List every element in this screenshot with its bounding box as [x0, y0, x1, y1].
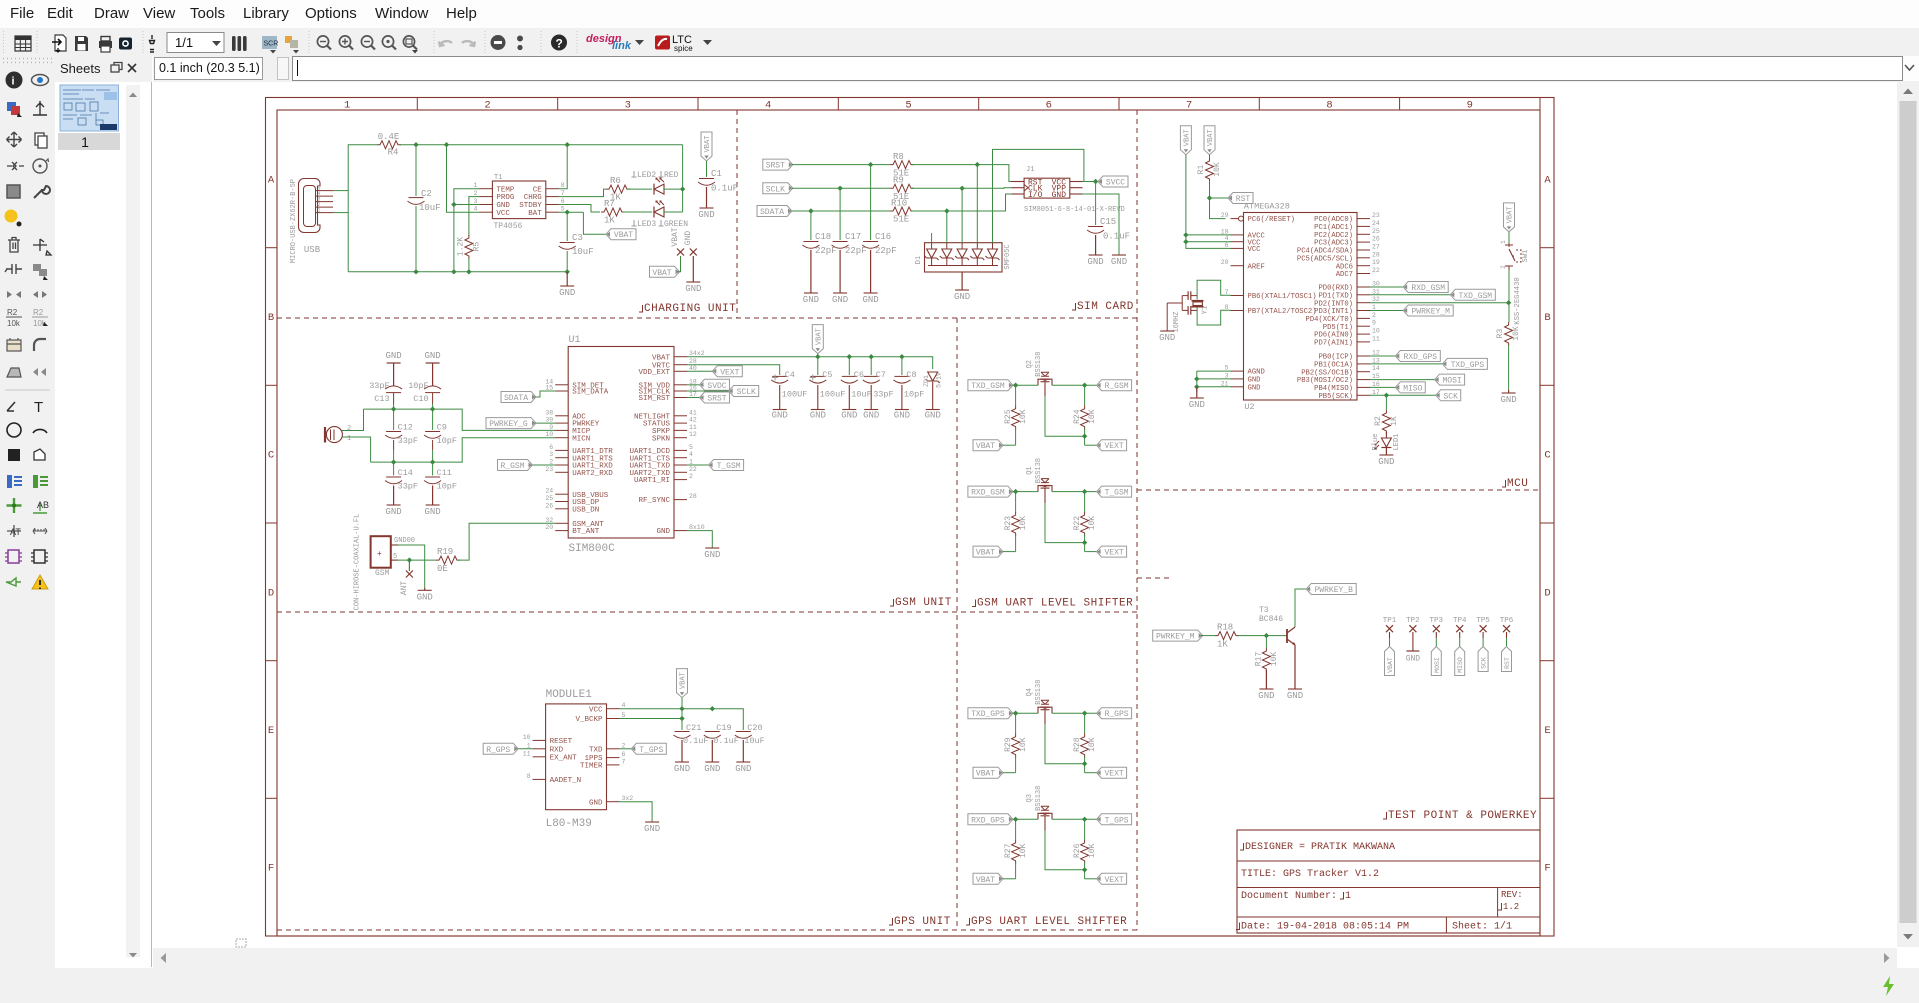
svg-text:Blue: Blue [1372, 434, 1380, 451]
svg-text:Date: 19-04-2018 08:05:14 PM: Date: 19-04-2018 08:05:14 PM [1241, 922, 1409, 933]
svg-text:SIM_RST: SIM_RST [638, 395, 670, 403]
svg-text:GND: GND [894, 411, 910, 421]
wire diode4 up [976, 165, 978, 243]
svg-text:R29: R29 [1004, 737, 1013, 752]
svg-text:2: 2 [484, 100, 490, 112]
pin 10 RESET [533, 739, 546, 741]
svg-text:1: 1 [344, 100, 350, 112]
svg-text:VCC: VCC [496, 210, 510, 218]
wire R18 to base [1237, 635, 1287, 637]
svg-text:15: 15 [545, 385, 553, 392]
pin 26 USB_DN [555, 508, 568, 510]
transistor Q3 BSS138 [1038, 813, 1052, 819]
toolbar copy-image icon [119, 38, 132, 50]
svg-text:R_GPS: R_GPS [1105, 710, 1129, 719]
svg-text:CE: CE [533, 186, 543, 194]
svg-text:MOSI: MOSI [1442, 377, 1461, 386]
net flag VBAT gps [677, 669, 688, 698]
pin 17 SIM_RST [674, 397, 687, 399]
wire diode3 up [961, 188, 963, 242]
sidebar icon filter [33, 368, 46, 376]
svg-text:SDATA: SDATA [504, 394, 528, 403]
svg-text:USB: USB [304, 245, 321, 255]
capacitor C3 [560, 242, 575, 244]
wire PD2 to switch [1370, 302, 1509, 304]
junction bottom rail R5 [466, 269, 471, 274]
svg-text:GND: GND [1406, 655, 1421, 664]
net flag MISO [1370, 386, 1395, 388]
net flag VEXT gsm [687, 370, 713, 372]
svg-text:VEXT: VEXT [1104, 549, 1123, 558]
svg-text:GND: GND [589, 799, 603, 807]
wire GND bottom rail [348, 271, 567, 273]
net flag VBAT mcu left1 [1180, 126, 1191, 155]
svg-text:MICN: MICN [572, 435, 590, 443]
svg-text:32: 32 [545, 517, 553, 524]
junction C18 SDATA [808, 208, 813, 213]
pin 6 UART1_DTR [555, 449, 568, 451]
svg-text:R26: R26 [1073, 843, 1082, 858]
wire VBAT to R [1003, 444, 1016, 446]
wire CHRG pin7 to R6 [559, 189, 606, 197]
junction mic rail c11 [430, 459, 435, 464]
junction right [1082, 711, 1087, 716]
wire VEXT [1085, 551, 1097, 553]
svg-text:10K: 10K [1019, 516, 1028, 531]
svg-text:13: 13 [1372, 357, 1380, 364]
net flag VBAT shifter [999, 770, 1003, 775]
svg-text:UART2_RXD: UART2_RXD [572, 470, 613, 478]
svg-text:Document Number:: Document Number: [1241, 890, 1337, 902]
sidebar icon line tool [7, 402, 15, 411]
pin 12 SPKN [674, 437, 687, 439]
wire VEXT [1085, 772, 1097, 774]
svg-text:10K: 10K [1019, 843, 1028, 858]
pin 11 PD7(AIN1) [1357, 341, 1370, 343]
svg-text:R18: R18 [1217, 623, 1233, 633]
svg-text:SMF05C: SMF05C [1004, 244, 1012, 269]
net flag RXD_GSM [1009, 489, 1013, 494]
svg-text:GND: GND [559, 288, 575, 298]
svg-text:GPS UART LEVEL SHIFTER: GPS UART LEVEL SHIFTER [971, 916, 1127, 928]
pin 3 UART1_RTS [555, 457, 568, 459]
svg-text:2: 2 [1372, 312, 1376, 319]
svg-text:GND: GND [685, 284, 701, 294]
pin 2 PD4(XCK/T0) [1357, 317, 1370, 319]
wire VBAT flag to nc [678, 256, 681, 272]
svg-text:C18: C18 [815, 232, 831, 242]
svg-text:38: 38 [545, 409, 553, 416]
resistor R17 [1265, 636, 1267, 648]
net flag SDATA [788, 209, 792, 214]
resistor R8 [890, 161, 914, 169]
toolbar zoom combo [167, 33, 224, 53]
junction bottom rail C3 [565, 269, 570, 274]
svg-text:22: 22 [689, 466, 697, 473]
svg-text:28: 28 [1372, 251, 1380, 258]
wire VBAT to R [1003, 878, 1016, 880]
wire VCC pin4 [447, 145, 480, 213]
ground symbol C15 [1089, 254, 1103, 256]
svg-text:BT_ANT: BT_ANT [572, 528, 600, 536]
svg-text:TITLE: GPS Tracker V1.2: TITLE: GPS Tracker V1.2 [1241, 868, 1379, 880]
wire drain [1052, 384, 1097, 386]
pin 5 BAT [546, 211, 559, 213]
ground symbol J1 GND [1112, 254, 1126, 256]
svg-text:20: 20 [545, 524, 553, 531]
svg-text:R7: R7 [604, 199, 615, 209]
svg-text:B: B [268, 312, 274, 324]
junction SVCC C15 [1093, 179, 1098, 184]
wire gate [1045, 725, 1085, 764]
pin 10 PD6(AIN0) [1357, 333, 1370, 335]
svg-text:11: 11 [1372, 335, 1380, 342]
net flag VEXT shifter [1097, 443, 1101, 448]
svg-text:51E: 51E [893, 215, 909, 225]
svg-text:?: ? [556, 37, 563, 51]
wire VEXT [1085, 444, 1097, 446]
junction right [1082, 489, 1087, 494]
net flag SCLK gsm [687, 390, 729, 392]
svg-text:R9: R9 [893, 176, 904, 186]
svg-text:AB: AB [37, 500, 49, 510]
wire VBAT rail gsm [687, 357, 933, 369]
svg-text:GND: GND [1248, 377, 1261, 385]
svg-text:RXD: RXD [550, 746, 564, 754]
svg-text:1: 1 [1500, 240, 1507, 244]
svg-text:PC0(ADC0): PC0(ADC0) [1314, 216, 1353, 224]
net flag VEXT shifter [1097, 549, 1101, 554]
svg-text:9: 9 [549, 424, 553, 431]
svg-text:C9: C9 [437, 423, 447, 433]
wire VCC rail [620, 709, 744, 730]
pin 17 PB5(SCK) [1357, 394, 1370, 396]
svg-text:1: 1 [527, 742, 531, 749]
ground symbol C16 [864, 292, 878, 294]
IC T1 TP4056 [492, 181, 545, 219]
pin 7 CHRG [546, 196, 559, 198]
svg-text:10pF: 10pF [904, 390, 924, 400]
junction top rail CE [565, 142, 570, 147]
svg-text:R6: R6 [610, 176, 621, 186]
section divider row3 bottom [277, 929, 1137, 931]
wire VBAT to R [1003, 772, 1016, 774]
pin 19 ADC6 [1357, 265, 1370, 267]
svg-text:R2: R2 [7, 308, 18, 317]
pin 1 PD3(INT1) [1357, 310, 1370, 312]
transistor Q2 BSS138 [1038, 379, 1052, 385]
svg-text:8: 8 [527, 773, 531, 780]
svg-text:3x2: 3x2 [622, 795, 634, 802]
pin 20 AREF [1231, 265, 1244, 267]
junction AGND [1194, 376, 1199, 381]
svg-text:RXD_GSM: RXD_GSM [1411, 284, 1445, 293]
svg-text:16: 16 [1372, 381, 1380, 388]
svg-text:10K: 10K [1088, 737, 1097, 752]
LED3 GREEN [654, 207, 664, 217]
capacitor C15 [1088, 226, 1103, 228]
svg-text:GND: GND [863, 411, 879, 421]
svg-text:GND: GND [1111, 257, 1127, 267]
wire C7 top [870, 357, 872, 375]
svg-text:R_GSM: R_GSM [1105, 382, 1129, 391]
wire gate [1045, 397, 1085, 437]
sidebar icon fill square [7, 185, 20, 198]
svg-text:BAT: BAT [528, 210, 542, 218]
svg-text:Y1: Y1 [1202, 305, 1210, 315]
net flag VEXT shifter [1097, 876, 1101, 881]
svg-text:C: C [268, 450, 274, 462]
svg-text:10: 10 [545, 431, 553, 438]
net flag SRST [789, 162, 793, 167]
status bar lightning icon [1883, 976, 1894, 996]
resistor R19 [436, 556, 460, 564]
wire SDATA row right [912, 194, 1011, 211]
wire LED1 to gnd [1385, 448, 1387, 456]
ground symbol mcu agnd [1196, 387, 1198, 398]
title block designer text [1240, 843, 1244, 850]
svg-text:PD2(INT0): PD2(INT0) [1314, 300, 1353, 308]
resistor R26 right pulldown [1084, 819, 1086, 840]
switch SW1 [1505, 244, 1513, 246]
pin 4 VCC [479, 211, 492, 213]
svg-text:RESET: RESET [550, 738, 573, 746]
pin 18 SIM_VDD [674, 384, 687, 386]
svg-text:GND: GND [1378, 457, 1394, 467]
section title GPS UNIT [889, 918, 893, 925]
svg-text:R19: R19 [437, 547, 453, 557]
svg-text:GND: GND [424, 351, 440, 361]
svg-text:C17: C17 [845, 232, 861, 242]
svg-text:PB7(XTAL2/TOSC2): PB7(XTAL2/TOSC2) [1248, 308, 1317, 316]
ground symbol C17 [833, 292, 847, 294]
svg-text:26: 26 [545, 502, 553, 509]
svg-text:F: F [1544, 863, 1550, 875]
junction VBCKP C21 [679, 716, 684, 721]
svg-text:0.1uF: 0.1uF [713, 736, 739, 746]
svg-text:MOSI: MOSI [1434, 657, 1441, 673]
svg-text:31: 31 [1372, 288, 1380, 295]
resistor R4 [377, 141, 401, 149]
ground symbol LED1 [1379, 454, 1393, 456]
wire PWRKEY_M to R18 [1201, 635, 1215, 637]
svg-text:10K: 10K [1088, 409, 1097, 424]
capacitor C20 [736, 731, 751, 733]
svg-text:MODULE1: MODULE1 [546, 689, 593, 701]
wire drain [1052, 712, 1097, 714]
pin 18 AVCC [1231, 234, 1244, 236]
svg-text:PB2(SS/OC1B): PB2(SS/OC1B) [1301, 369, 1353, 377]
svg-text:6: 6 [549, 444, 553, 451]
sidebar icon corner [34, 339, 46, 351]
sidebar icon union [33, 264, 41, 271]
wire left vertical [348, 145, 377, 272]
svg-text:KSS-2EG4430: KSS-2EG4430 [1514, 277, 1522, 324]
sidebar icon origin [33, 101, 47, 115]
pin 15 PB3(MOSI/OC2) [1357, 379, 1370, 381]
junction diode4 SRST [975, 162, 980, 167]
wire AVCC row [1186, 234, 1231, 236]
svg-text:TP6: TP6 [1500, 617, 1514, 625]
svg-text:CHARGING UNIT: CHARGING UNIT [644, 303, 736, 315]
svg-text:42: 42 [689, 417, 697, 424]
sheets panel page number [58, 133, 120, 150]
net flag VBAT vertical C1 [701, 132, 712, 161]
pin 27 PC4(ADC4/SDA) [1357, 249, 1370, 251]
sidebar icon disconnect [5, 264, 22, 274]
svg-text:U2: U2 [1244, 402, 1254, 412]
svg-text:5: 5 [622, 712, 626, 719]
svg-text:R5: R5 [473, 242, 482, 252]
svg-text:R1: R1 [1197, 165, 1206, 175]
capacitor C18 [803, 241, 818, 243]
svg-text:2: 2 [689, 473, 693, 480]
svg-text:22pF: 22pF [815, 246, 837, 256]
svg-text:33pF: 33pF [398, 436, 418, 446]
wire VBAT top rail [400, 144, 683, 146]
sidebar separator [5, 389, 50, 391]
net flag VBAT charging [607, 232, 611, 237]
pin 12 PB0(ICP) [1357, 355, 1370, 357]
svg-text:VBAT: VBAT [652, 269, 671, 278]
pin 8 PB7(XTAL2/TOSC2) [1231, 310, 1244, 312]
wire GND pin3 [454, 204, 480, 206]
svg-text:J1: J1 [1026, 166, 1034, 174]
svg-text:GND: GND [644, 824, 660, 834]
ground symbol charging rail [560, 285, 574, 287]
svg-text:TIMER: TIMER [580, 763, 603, 771]
transistor Q4 BSS138 [1038, 707, 1052, 713]
net flag RXD_GSM [1370, 286, 1403, 288]
svg-text:BSS138: BSS138 [1035, 458, 1043, 483]
wire STDBY pin6 to R7 [559, 205, 600, 213]
svg-text:3: 3 [625, 100, 631, 112]
svg-text:T: T [34, 399, 43, 416]
svg-text:spice: spice [674, 44, 693, 53]
net flag R_GPS [516, 748, 533, 750]
wire SCK to R2 [1385, 395, 1387, 410]
svg-text:17: 17 [1372, 389, 1380, 396]
pin 23 PC0(ADC0) [1357, 218, 1370, 220]
junction C16 SRST [868, 162, 873, 167]
SIM connector J1 [1024, 178, 1070, 198]
svg-text:Q2: Q2 [1026, 360, 1034, 368]
capacitor C16 [863, 241, 878, 243]
svg-text:GND: GND [1248, 384, 1261, 392]
section title GPS UART LEVEL SHIFTER [966, 918, 970, 925]
svg-text:TP1: TP1 [1383, 617, 1397, 625]
wire R7 to LED3 [623, 211, 652, 213]
svg-text:6: 6 [622, 751, 626, 758]
svg-text:23: 23 [545, 466, 553, 473]
resistor R3 [1505, 322, 1513, 346]
svg-text:12: 12 [689, 431, 697, 438]
wire gate [1045, 503, 1085, 542]
svg-text:GND: GND [1087, 257, 1103, 267]
sidebar icon eye [32, 75, 49, 86]
sidebar icon layers [7, 102, 16, 111]
svg-text:2: 2 [622, 742, 626, 749]
svg-text:GND: GND [385, 351, 401, 361]
svg-text:D1: D1 [915, 256, 923, 264]
svg-text:VEXT: VEXT [720, 368, 739, 377]
ground symbol C7 [864, 409, 878, 411]
svg-text:SCK: SCK [1481, 657, 1488, 669]
svg-text:1/1: 1/1 [175, 35, 193, 50]
wire diode array to ground [961, 272, 963, 290]
horizontal scrollbar [153, 948, 1897, 968]
wire SDATA row [792, 210, 890, 212]
svg-text:C16: C16 [875, 232, 891, 242]
wire VBAT to SW1 [1508, 232, 1510, 243]
junction top rail C2 [413, 142, 418, 147]
ground symbol C19 [705, 761, 719, 763]
svg-text:10K: 10K [1270, 652, 1279, 667]
net flag PWRKEY_M tp [1199, 633, 1203, 638]
net flag SVDC [687, 384, 700, 386]
svg-text:1K: 1K [1217, 640, 1228, 650]
svg-text:PD3(INT1): PD3(INT1) [1314, 308, 1353, 316]
svg-text:22: 22 [1372, 267, 1380, 274]
pin 14 PB2(SS/OC1B) [1357, 371, 1370, 373]
svg-text:Sheet: 1/1: Sheet: 1/1 [1452, 921, 1512, 933]
svg-text:SCLK: SCLK [737, 388, 756, 397]
wire C15 down [1095, 182, 1097, 226]
ground symbol emitter [1288, 688, 1302, 690]
wire USB VBUS to R4 [333, 190, 348, 192]
svg-text:MISO: MISO [1457, 657, 1464, 673]
svg-text:TP2: TP2 [1406, 617, 1420, 625]
svg-text:R3: R3 [1496, 329, 1505, 339]
ground symbol C14 [387, 504, 401, 506]
svg-text:8: 8 [1326, 100, 1332, 112]
svg-text:GND: GND [704, 764, 720, 774]
svg-text:R2: R2 [1374, 416, 1383, 426]
svg-text:PROG: PROG [496, 194, 515, 202]
pin 4 VCC [1231, 241, 1244, 243]
svg-text:C: C [1544, 450, 1550, 462]
svg-text:C5: C5 [822, 370, 832, 380]
svg-text:1: 1 [1372, 304, 1376, 311]
wire R1 to RST node [1210, 181, 1226, 219]
svg-text:0.1uF: 0.1uF [1103, 232, 1130, 242]
svg-text:5: 5 [561, 206, 565, 213]
net flag VBAT switch [1504, 203, 1515, 232]
net flag T_GSM [1097, 489, 1101, 494]
net flag T_GSM gsm [687, 464, 709, 466]
junction mic rail c14 [391, 459, 396, 464]
wire VRTC to C4 [687, 365, 780, 375]
toolbar grid icon [15, 36, 31, 51]
ground symbol zener [926, 409, 940, 411]
svg-text:10: 10 [523, 734, 531, 741]
section divider gsm/shifter vertical [956, 318, 958, 930]
svg-text:i: i [12, 76, 15, 88]
ground symbol C6 [842, 409, 856, 411]
wire C6 top [848, 357, 850, 375]
svg-text:R4: R4 [388, 148, 399, 158]
net flag MOSI [1370, 379, 1435, 381]
svg-text:V_BCKP: V_BCKP [575, 716, 603, 724]
ground symbol crystal [1160, 330, 1174, 332]
svg-text:MISO: MISO [1403, 384, 1422, 393]
pin 28 RF_SYNC [674, 499, 687, 501]
USB connector J-USB micro [299, 179, 321, 233]
svg-text:RXD_GSM: RXD_GSM [971, 489, 1005, 498]
sidebar icon info [6, 72, 23, 89]
wire RST branch [1210, 197, 1229, 199]
net flag VBAT mcu left2 [1204, 126, 1215, 155]
